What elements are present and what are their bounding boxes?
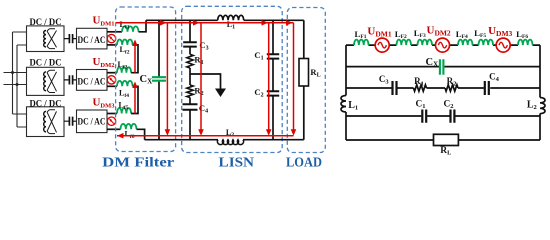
wire row 1 bottom output bbox=[107, 44, 117, 46]
inductor Lf5 bbox=[117, 108, 131, 113]
junction dot row2 bottom bbox=[16, 83, 19, 86]
wire row2 input stubs bbox=[4, 73, 27, 85]
wire C1 branch top bbox=[272, 20, 274, 54]
arrow down to bottom bus bbox=[165, 129, 171, 136]
inductor LF3 bbox=[418, 40, 433, 46]
svg-text:DC / AC: DC / AC bbox=[78, 76, 106, 86]
wire C3 branch top bbox=[189, 20, 191, 42]
wire CX branch bbox=[346, 66, 540, 68]
wire red drop RL bbox=[293, 23, 295, 133]
inductor Lf4 bbox=[117, 81, 133, 86]
inductor LF1 bbox=[354, 40, 369, 46]
wire bus vertical A bbox=[12, 32, 14, 114]
wire top edge segments bbox=[346, 44, 540, 46]
resistor R1 (LISN) bbox=[187, 54, 193, 68]
capacitor C3 (equivalent) bbox=[393, 81, 397, 95]
wire row 1 top output bbox=[107, 31, 122, 33]
wire bottom bus bbox=[145, 139, 218, 141]
arrow right on top bus bbox=[193, 20, 200, 26]
measurement arrow bbox=[215, 89, 226, 98]
DC/DC converter box row 2 bbox=[27, 67, 65, 95]
wire row 2 bottom output bbox=[107, 85, 117, 87]
inductor LF6 bbox=[518, 40, 533, 46]
measurement tap wire bbox=[190, 74, 221, 90]
wire row1 inputs bbox=[13, 32, 27, 45]
arrow right on top bus bbox=[286, 20, 293, 26]
capacitor C3 (LISN) bbox=[183, 42, 197, 46]
svg-text:DC / AC: DC / AC bbox=[78, 117, 106, 127]
arrow down to bottom bus bbox=[266, 129, 272, 136]
capacitor C4 (LISN) bbox=[183, 104, 198, 110]
DC/DC converter box row 3 bbox=[27, 107, 65, 137]
DC/DC converter box row 1 bbox=[27, 26, 65, 52]
wire red up-segment row1 bbox=[134, 45, 136, 73]
arrow right on top bus bbox=[160, 20, 167, 26]
DM Filter dashed box bbox=[116, 7, 176, 152]
wire C2 to bottom bus bbox=[272, 96, 274, 140]
wire bus vertical B bbox=[16, 45, 18, 127]
wire C1-C2 branch bbox=[346, 115, 540, 117]
wire C1 to C2 bbox=[272, 59, 274, 92]
capacitor CX (DM filter) bbox=[158, 20, 160, 139]
inductor Lf6 bbox=[121, 124, 137, 129]
left DC input bus bbox=[4, 32, 27, 127]
source U_DM2 bbox=[436, 38, 450, 52]
arrow down to bottom bus bbox=[198, 129, 204, 136]
inductor LF5 bbox=[479, 40, 494, 46]
svg-text:LISN: LISN bbox=[219, 156, 255, 171]
svg-text:DC / AC: DC / AC bbox=[78, 35, 106, 45]
wire red up-segment row2 bbox=[134, 88, 136, 114]
arrow up row1 series link bbox=[132, 40, 138, 47]
DC/AC inverter box row 3 bbox=[77, 110, 108, 133]
dc-link capacitor row 3 bbox=[64, 120, 77, 122]
resistor RL (equivalent) bbox=[434, 134, 459, 145]
wire row 3 top output bbox=[107, 113, 117, 115]
wire bottom branch bbox=[346, 139, 540, 141]
capacitor CX (equivalent) bbox=[440, 59, 444, 75]
resistor R2 (LISN) bbox=[187, 85, 193, 98]
inductor Lf3 bbox=[117, 67, 131, 72]
svg-text:DM Filter: DM Filter bbox=[102, 156, 174, 171]
noise source symbol row 3 bbox=[107, 117, 115, 125]
wire R1 to junction bbox=[189, 68, 191, 85]
dc-link capacitor row 2 bbox=[64, 79, 77, 81]
transformer T2 bbox=[44, 70, 57, 92]
transformer T3 bbox=[44, 110, 57, 134]
wire red top bus bbox=[116, 22, 294, 24]
arrow right on top bus bbox=[262, 20, 269, 26]
red noise current path bbox=[116, 23, 294, 136]
wire red drop C1C2 bbox=[268, 23, 270, 133]
svg-text:LOAD: LOAD bbox=[286, 156, 322, 171]
wire row2 bottom to row3 top bbox=[131, 86, 138, 113]
junction dot row2 top bbox=[11, 71, 14, 74]
wire row 2 top output bbox=[107, 72, 117, 74]
wire top bus bbox=[146, 19, 218, 21]
inductor LF4 bbox=[458, 40, 473, 46]
capacitor C1 (LISN) bbox=[267, 54, 279, 58]
inductor Lf2 bbox=[117, 40, 133, 45]
inductor L1 (equivalent) bbox=[341, 96, 346, 113]
source U_DM3 bbox=[496, 38, 510, 52]
source U_DM1 bbox=[375, 38, 389, 52]
wire C4 to bottom bus bbox=[189, 110, 191, 140]
DC/AC inverter box row 1 bbox=[77, 28, 108, 49]
transformer T1 bbox=[44, 29, 57, 49]
noise source symbol row 2 bbox=[107, 76, 115, 84]
wire C3 to R1 bbox=[189, 47, 191, 55]
wire row3 inputs bbox=[13, 114, 27, 127]
wire row 3 bottom output bbox=[107, 128, 121, 130]
LOAD dashed box bbox=[287, 8, 325, 153]
resistor R1 (equivalent) bbox=[414, 85, 427, 91]
capacitor C4 (equivalent) bbox=[485, 81, 489, 95]
wire top bus right bbox=[244, 19, 304, 21]
resistor RL (load) bbox=[299, 59, 309, 87]
wire R2 to C4 bbox=[189, 98, 191, 105]
arrow down to bottom bus bbox=[291, 129, 297, 136]
capacitor C2 (LISN) bbox=[267, 91, 279, 95]
arrow left at bottom bus end bbox=[117, 133, 124, 139]
wire outer left edge bbox=[345, 45, 347, 140]
inductor L2 (equivalent) bbox=[540, 98, 545, 114]
DC/AC inverter box row 2 bbox=[77, 70, 108, 91]
wire row1 bottom to row2 top bbox=[131, 45, 138, 73]
wire red bottom bus bbox=[117, 135, 294, 137]
inductor L2 (LISN) bbox=[217, 140, 243, 145]
wire red drop LISN branch bbox=[200, 23, 202, 133]
arrow up row2 series link bbox=[132, 82, 138, 89]
dc-link capacitor row 1 bbox=[64, 38, 77, 40]
wire C3-R1-R2-C4 branch bbox=[346, 87, 540, 89]
right equivalent circuit bbox=[346, 45, 540, 140]
noise source symbol row 1 bbox=[107, 34, 115, 42]
inductor Lf1 bbox=[122, 26, 139, 31]
inductor L1 (LISN) bbox=[218, 15, 244, 20]
wire row3 bottom to bottom bus bbox=[137, 129, 145, 139]
wire load branch bbox=[303, 20, 305, 139]
resistor R2 (equivalent) bbox=[445, 85, 458, 91]
capacitor C2 (equivalent) bbox=[451, 110, 455, 123]
capacitor C1 (equivalent) bbox=[422, 110, 426, 123]
wire red drop CX bbox=[166, 23, 168, 133]
wire outer right edge bbox=[539, 45, 541, 140]
inductor LF2 bbox=[397, 40, 412, 46]
wire bottom bus right bbox=[243, 139, 304, 141]
LISN dashed box bbox=[182, 6, 283, 152]
wire row1 top to bus bbox=[139, 20, 147, 32]
